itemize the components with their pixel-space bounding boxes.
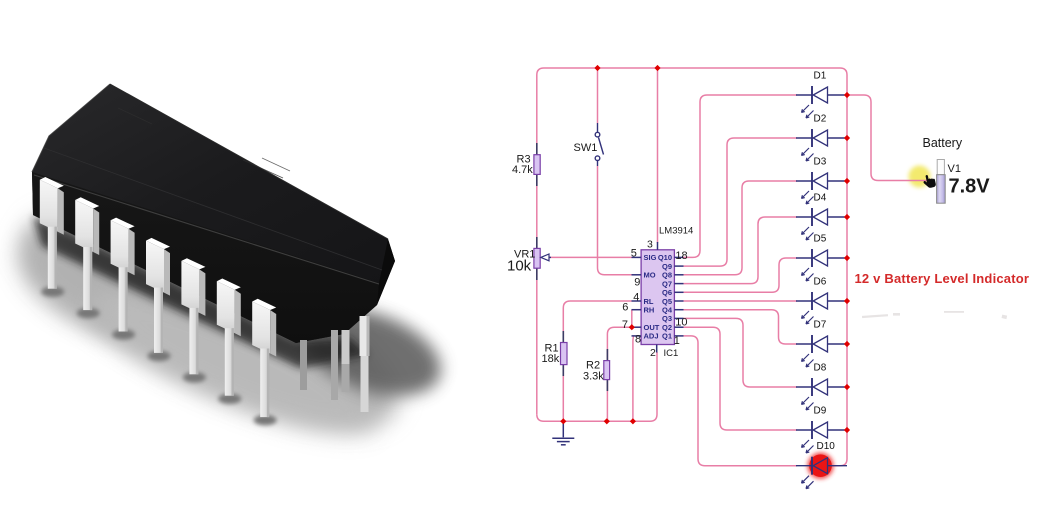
svg-text:ADJ: ADJ: [644, 332, 659, 341]
svg-text:10k: 10k: [507, 258, 532, 275]
svg-text:LM3914: LM3914: [659, 226, 693, 237]
svg-text:Q7: Q7: [662, 279, 672, 288]
svg-text:D7: D7: [814, 320, 827, 331]
svg-text:V1: V1: [948, 163, 961, 175]
svg-text:10: 10: [675, 316, 687, 328]
svg-text:D6: D6: [814, 277, 827, 288]
svg-text:18k: 18k: [542, 353, 560, 365]
svg-text:Q3: Q3: [662, 314, 672, 323]
svg-text:Q4: Q4: [662, 306, 673, 315]
svg-text:9: 9: [634, 277, 640, 289]
svg-text:3.3k: 3.3k: [583, 371, 604, 383]
svg-text:D9: D9: [814, 406, 827, 417]
svg-text:D4: D4: [814, 193, 827, 204]
svg-text:D2: D2: [814, 114, 827, 125]
svg-text:OUT: OUT: [644, 323, 660, 332]
svg-text:Q8: Q8: [662, 271, 672, 280]
svg-text:D1: D1: [814, 71, 827, 82]
svg-text:5: 5: [631, 248, 637, 260]
svg-text:RH: RH: [644, 306, 655, 315]
svg-text:Q2: Q2: [662, 323, 672, 332]
svg-text:SW1: SW1: [574, 142, 598, 154]
svg-text:Q9: Q9: [662, 262, 672, 271]
svg-text:4: 4: [633, 291, 639, 303]
svg-text:2: 2: [650, 347, 656, 359]
svg-text:D8: D8: [814, 363, 827, 374]
svg-text:D5: D5: [814, 234, 827, 245]
svg-text:4.7k: 4.7k: [512, 164, 533, 176]
svg-text:Q6: Q6: [662, 288, 672, 297]
svg-text:RL: RL: [644, 297, 654, 306]
svg-text:3: 3: [647, 239, 653, 251]
svg-text:7: 7: [622, 319, 628, 331]
svg-text:Q5: Q5: [662, 297, 672, 306]
svg-text:8: 8: [635, 333, 641, 345]
svg-text:Q1: Q1: [662, 332, 672, 341]
svg-text:Q10: Q10: [658, 253, 672, 262]
svg-text:1: 1: [674, 335, 680, 347]
svg-text:IC1: IC1: [664, 348, 679, 359]
svg-text:SIG: SIG: [644, 253, 657, 262]
svg-text:D3: D3: [814, 157, 827, 168]
svg-text:7.8V: 7.8V: [949, 176, 991, 198]
svg-text:Battery: Battery: [923, 136, 963, 150]
svg-text:MO: MO: [644, 271, 656, 280]
svg-text:12 v Battery Level Indicator: 12 v Battery Level Indicator: [855, 271, 1030, 286]
svg-text:18: 18: [675, 250, 687, 262]
svg-text:6: 6: [622, 302, 628, 314]
svg-text:D10: D10: [817, 441, 836, 452]
